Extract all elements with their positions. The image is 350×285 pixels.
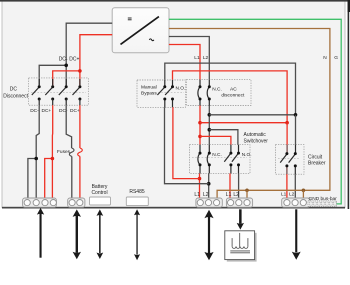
enclosure top edge <box>0 0 350 2</box>
svg-text:Breaker: Breaker <box>308 161 326 167</box>
wire L1 J3 to switchover NO1 <box>200 136 231 144</box>
node J6 L2 riser <box>294 113 298 117</box>
Circuit Breaker CB1 dashed box <box>276 145 305 175</box>
shore power box <box>225 231 257 262</box>
terminal block TB5 AC in <box>282 198 310 207</box>
node neutral at AC-in <box>302 189 306 193</box>
node J8 AC-out L2 <box>207 182 211 186</box>
wire L1 disconnect to junction J1 <box>199 106 201 145</box>
svg-text:L1: L1 <box>226 192 232 198</box>
fuse F2 <box>78 148 83 156</box>
svg-text:Circuit: Circuit <box>308 154 323 160</box>
svg-text:Switchover: Switchover <box>244 139 269 145</box>
wire L2 J5 to breaker riser <box>209 114 295 116</box>
switch linkage CB1 <box>278 158 300 160</box>
node J7 L2 <box>208 128 212 132</box>
terminal block TB1 battery <box>23 198 57 207</box>
wire L1 AC-in down <box>286 174 288 199</box>
svg-text:Automatic: Automatic <box>244 132 267 138</box>
svg-text:N.O.: N.O. <box>176 86 186 92</box>
wire L1 AC-out down <box>199 173 201 198</box>
svg-text:L1: L1 <box>194 192 200 198</box>
svg-text:RS485: RS485 <box>129 189 145 195</box>
svg-text:disconnect: disconnect <box>221 93 245 99</box>
svg-text:Control: Control <box>91 190 107 196</box>
switch S1 pole3 <box>59 87 66 95</box>
wire battery negative branch <box>28 159 36 200</box>
wire fused positive to TB2 pin2 <box>79 156 81 199</box>
arrow rs485 double <box>134 209 140 260</box>
terminal block TB4 generator <box>226 198 252 207</box>
switch linkage K1 <box>192 157 247 159</box>
svg-text:DC+: DC+ <box>42 108 52 114</box>
wire L1 J1 to breaker riser <box>200 122 287 124</box>
switch S1 pole1 <box>32 87 39 95</box>
wire DC+ branch to switch 2 <box>53 71 80 87</box>
terminal block TB2 fused battery <box>68 198 85 207</box>
node battery negative junction <box>34 157 38 161</box>
arrow battery2 double <box>73 209 81 259</box>
svg-text:N.O.: N.O. <box>242 152 252 158</box>
node DC- junction <box>64 64 68 68</box>
breaker CB1 pole2 <box>295 145 297 153</box>
svg-text:L2: L2 <box>203 55 209 61</box>
switchover K1 NO pole2 <box>232 145 239 174</box>
wire battery negative to TB1 pin2 <box>35 159 37 200</box>
arrow battery-control double <box>97 209 104 259</box>
node DC+ junction <box>78 69 82 73</box>
Automatic Switchover K1 dashed box <box>190 145 251 174</box>
wire L1 bypass return <box>173 107 200 178</box>
svg-text:Manual: Manual <box>141 84 157 90</box>
wire L1 riser to breaker <box>286 123 288 145</box>
svg-text:G: G <box>334 55 338 61</box>
svg-text:L1: L1 <box>194 55 200 61</box>
wire L1 inverter to AC disconnect <box>169 45 200 80</box>
wire neutral stub AC-in <box>302 190 304 198</box>
switchover K1 NO pole1 <box>224 145 231 174</box>
svg-text:N.C.: N.C. <box>212 152 222 158</box>
AC disconnect S3 dashed box <box>187 80 252 106</box>
switchover K1 NC pole1 <box>198 145 200 174</box>
svg-text:L2: L2 <box>289 192 295 198</box>
wire fused negative pole3 down <box>66 105 71 148</box>
node battery positive junction <box>51 157 55 161</box>
wire L2 disconnect to junction J5 <box>208 106 210 145</box>
wire DC- branch to switch 1 <box>39 65 66 86</box>
svg-text:N: N <box>323 55 327 61</box>
inverter DC symbol <box>128 18 132 20</box>
svg-text:Disconnect: Disconnect <box>3 93 28 99</box>
window edge artifact right <box>348 0 350 209</box>
wire L2 J7 to switchover NO2 <box>209 130 238 145</box>
svg-text:L2: L2 <box>203 192 209 198</box>
wire neutral stub generator <box>246 190 248 199</box>
inverter U1 box <box>112 8 169 53</box>
fuse F1 <box>69 148 74 156</box>
arrow AC-in down <box>292 209 301 259</box>
node neutral at generator <box>245 189 249 193</box>
wire L2 inverter to AC disconnect <box>169 37 209 80</box>
wire fused negative to TB2 pin1 <box>71 156 73 199</box>
RS485 connector box <box>126 197 148 206</box>
shore power icon <box>230 233 250 253</box>
svg-text:DC-: DC- <box>59 56 68 62</box>
breaker CB1 pole1 <box>286 145 288 153</box>
svg-text:DC+: DC+ <box>69 56 79 62</box>
wire L2 bypass loop <box>165 63 296 115</box>
GND bus-bar <box>308 201 337 207</box>
svg-text:N.C.: N.C. <box>212 86 222 92</box>
switch linkage S1 <box>31 92 86 94</box>
node J5 L2 <box>208 113 212 117</box>
svg-text:DC-: DC- <box>30 108 39 114</box>
enclosure body <box>2 1 345 208</box>
wire L1 bypass loop <box>173 71 288 123</box>
svg-text:DC: DC <box>10 87 18 93</box>
node J1 L1 <box>198 121 202 125</box>
Manual Bypass S2 dashed box <box>137 80 186 107</box>
terminal block TB3 AC out <box>196 198 222 207</box>
wire ground G from inverter <box>169 19 341 204</box>
switch S3 pole1 N.C. <box>198 80 200 106</box>
node J3 L1 <box>198 135 202 139</box>
wire fused positive pole4 down <box>79 105 81 148</box>
wire L2 riser to breaker <box>295 115 297 145</box>
wire battery negative pole1 to TB1 <box>36 105 39 158</box>
wire DC+ from inverter to junction <box>80 35 112 87</box>
wire L2 AC-out down <box>208 173 210 198</box>
wire neutral N from inverter <box>169 29 330 199</box>
switchover K1 NC pole2 <box>207 145 209 174</box>
inverter AC symbol <box>149 39 154 41</box>
arrow AC-out double <box>204 210 213 260</box>
switch S2 pole1 <box>157 80 164 107</box>
switch S3 pole2 N.C. <box>207 80 209 106</box>
switch S1 pole2 <box>45 87 52 95</box>
arrow generator down <box>237 209 244 229</box>
svg-text:L1: L1 <box>281 192 287 198</box>
arrow battery up <box>37 208 44 258</box>
switch S1 pole4 <box>73 87 80 95</box>
svg-text:Fuses: Fuses <box>57 149 71 155</box>
wire L2 generator down <box>238 173 240 198</box>
battery control connector box <box>90 197 111 205</box>
node J2 L1 riser <box>285 121 289 125</box>
wire L2 bypass return <box>165 107 209 183</box>
wire DC- from inverter to junction <box>66 23 112 86</box>
wire battery positive branch <box>45 159 53 200</box>
inverter diagonal <box>121 17 159 45</box>
switch linkage S2 <box>158 92 184 94</box>
wire battery positive to TB1 pin4 <box>51 159 53 200</box>
DC Disconnect S1 dashed box <box>29 78 89 105</box>
node J4 AC-out L1 <box>198 177 202 181</box>
svg-text:AC: AC <box>230 86 237 92</box>
wire L1 generator down <box>229 173 231 198</box>
switch S2 pole2 <box>165 80 172 107</box>
wire L2 AC-in down <box>294 174 296 199</box>
svg-text:L2: L2 <box>233 192 239 198</box>
switch S1 pole leads inside box <box>39 79 80 105</box>
svg-text:Bypass: Bypass <box>141 90 157 96</box>
svg-text:DC+: DC+ <box>70 108 80 114</box>
wire battery positive pole2 to TB1 <box>51 105 53 158</box>
enclosure bottom edge <box>2 207 345 209</box>
